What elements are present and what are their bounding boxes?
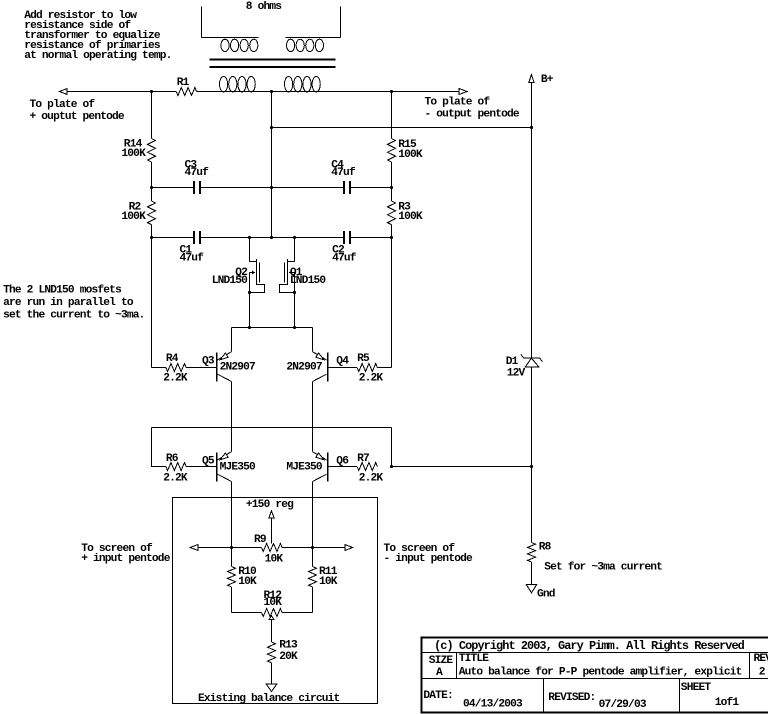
transformer T1 core (210, 60, 336, 68)
svg-text:at normal operating temp.: at normal operating temp. (24, 50, 171, 62)
svg-text:10K: 10K (238, 576, 257, 588)
svg-text:2.2K: 2.2K (163, 473, 188, 485)
transistor Q5 MJE350 (202, 452, 256, 482)
title block size cell (429, 655, 454, 679)
svg-text:SIZE: SIZE (429, 655, 454, 667)
title block sheet cell (681, 682, 740, 709)
transistor Q4 2N2907 (286, 352, 349, 382)
svg-text:R1: R1 (177, 77, 190, 89)
resistor R10 (228, 548, 257, 613)
svg-text:REVISED:: REVISED: (548, 692, 595, 704)
transformer T1 primary winding (220, 77, 321, 92)
resistor R2 (121, 201, 155, 225)
svg-text:R13: R13 (279, 640, 298, 652)
svg-text:R9: R9 (254, 534, 267, 546)
svg-text:Q5: Q5 (202, 455, 215, 467)
label: to screen of - input pentode (384, 543, 474, 565)
svg-text:Auto balance for P-P pentode a: Auto balance for P-P pentode amplifier, … (459, 667, 742, 679)
mosfet Q2 LND150 (212, 238, 265, 328)
title block title cell (459, 653, 742, 678)
wire: Q4 collector to Q6 emitter (312, 382, 314, 452)
wire: main plate wire with end arrows (59, 89, 467, 95)
svg-text:2.2K: 2.2K (359, 473, 384, 485)
wire: screen drive row with arrows (190, 545, 353, 551)
resistor R8 (528, 541, 552, 562)
svg-text:To plate of: To plate of (425, 96, 491, 108)
wire: upper cap row (152, 187, 392, 189)
svg-text:100K: 100K (121, 148, 146, 160)
svg-text:set the current to ~3ma.: set the current to ~3ma. (3, 310, 144, 322)
label: to plate of + ouptut pentode (30, 99, 125, 123)
capacitor C3 (185, 160, 210, 195)
svg-text:12V: 12V (507, 368, 526, 380)
capacitor C4 (331, 160, 356, 195)
ground Gnd (526, 584, 555, 600)
transistor Q3 2N2907 (202, 352, 255, 382)
wire: mosfet source rail to Q3 Q4 emitters (232, 326, 313, 352)
svg-text:10K: 10K (265, 554, 284, 566)
svg-text:The 2 LND150 mosfets: The 2 LND150 mosfets (3, 285, 122, 297)
resistor R11 (309, 548, 338, 613)
diode D1 zener 12V (506, 354, 543, 379)
svg-text:Q4: Q4 (336, 355, 349, 367)
resistor R1 (176, 77, 196, 95)
svg-text:REV: REV (754, 653, 768, 665)
transistor Q6 MJE350 (286, 452, 349, 482)
potentiometer R9 (254, 534, 283, 566)
svg-text:Q6: Q6 (336, 455, 349, 467)
wire: loop row to zener rail (392, 465, 534, 468)
wire: lower cap row (152, 236, 392, 239)
svg-text:100K: 100K (398, 149, 423, 161)
power symbol +150 reg (246, 499, 294, 543)
svg-text:SHEET: SHEET (681, 682, 712, 694)
note: add resistor annotation (24, 10, 171, 62)
svg-text:47uf: 47uf (185, 167, 210, 179)
svg-text:2N2907: 2N2907 (220, 362, 255, 374)
wire: R12 row (232, 612, 313, 614)
resistor R7 (328, 453, 383, 485)
capacitor C2 (332, 231, 357, 265)
svg-text:are run in parallel to: are run in parallel to (3, 297, 134, 309)
wire: secondary right stub (340, 7, 342, 38)
svg-text:D1: D1 (506, 356, 519, 368)
svg-text:A: A (436, 667, 443, 679)
resistor R5 (328, 353, 383, 385)
note: LND150 mosfets annotation (3, 285, 144, 322)
potentiometer R12 (262, 590, 283, 619)
wire: R13 to ground (271, 663, 273, 684)
svg-text:DATE:: DATE: (423, 690, 452, 702)
svg-text:R7: R7 (357, 453, 369, 465)
wire: feedback loop row (152, 428, 394, 469)
svg-text:100K: 100K (398, 211, 423, 223)
label: to plate of - output pentode (425, 96, 520, 120)
resistor R6 (163, 453, 216, 485)
svg-text:TITLE: TITLE (459, 653, 490, 665)
svg-text:100K: 100K (121, 211, 146, 223)
resistor R4 (163, 353, 216, 385)
svg-text:+ ouptut pentode: + ouptut pentode (30, 111, 125, 123)
wire: center tap to B+ rail (270, 126, 533, 129)
svg-text:- input pentode: - input pentode (384, 553, 474, 565)
wire: center column (270, 92, 273, 240)
wire: R12 wiper to R13 (271, 619, 273, 642)
svg-text:LND150: LND150 (212, 275, 248, 287)
label: to screen of + input pentode (81, 543, 171, 565)
svg-text:+150 reg: +150 reg (246, 499, 294, 511)
svg-text:8 ohms: 8 ohms (246, 1, 282, 13)
svg-text:R5: R5 (357, 353, 370, 365)
svg-text:Gnd: Gnd (537, 588, 555, 600)
transformer T1 secondary winding (202, 38, 341, 52)
svg-text:2: 2 (759, 666, 766, 678)
wire: secondary left stub (201, 7, 203, 38)
resistor R13 (268, 640, 298, 663)
wire: zener rail lower (531, 367, 533, 543)
wire: Q3 collector to Q5 emitter (231, 382, 233, 452)
svg-text:47uf: 47uf (331, 167, 356, 179)
svg-text:Existing balance circuit: Existing balance circuit (198, 693, 340, 705)
svg-text:07/29/03: 07/29/03 (599, 699, 647, 711)
ground arrow below R13 (266, 684, 277, 691)
title block revised cell (548, 692, 647, 711)
svg-text:R6: R6 (166, 453, 179, 465)
svg-text:R4: R4 (166, 353, 179, 365)
wire: right rail (377, 92, 393, 368)
svg-text:+ input pentode: + input pentode (81, 553, 171, 565)
title block date cell (423, 690, 523, 711)
svg-text:- output pentode: - output pentode (425, 108, 520, 120)
box: existing balance circuit (173, 498, 378, 705)
wire: R8 to ground (531, 562, 533, 584)
title block frame (422, 638, 768, 713)
mosfet Q1 LND150 (280, 238, 327, 328)
svg-text:To plate of: To plate of (30, 99, 96, 111)
svg-text:2.2K: 2.2K (359, 373, 384, 385)
svg-text:(c) Copyright 2003, Gary Pimm.: (c) Copyright 2003, Gary Pimm. All Right… (434, 639, 745, 653)
svg-text:10K: 10K (264, 597, 283, 609)
svg-text:Set for ~3ma current: Set for ~3ma current (544, 561, 662, 573)
resistor R14 (121, 138, 155, 162)
svg-text:B+: B+ (541, 74, 554, 86)
resistor R15 (388, 139, 423, 163)
svg-text:47uf: 47uf (332, 253, 357, 265)
wire: Q6 collector down (312, 482, 314, 548)
svg-text:MJE350: MJE350 (286, 462, 322, 474)
svg-text:10K: 10K (319, 576, 338, 588)
svg-text:04/13/2003: 04/13/2003 (463, 699, 523, 711)
svg-text:2N2907: 2N2907 (286, 362, 321, 374)
resistor R3 (388, 201, 423, 225)
svg-text:Q3: Q3 (202, 355, 215, 367)
svg-text:MJE350: MJE350 (220, 462, 256, 474)
svg-text:47uf: 47uf (180, 253, 205, 265)
svg-text:LND150: LND150 (290, 275, 326, 287)
wire: Q5 collector down (231, 482, 233, 548)
title block rev cell (754, 653, 768, 679)
wire: left rail (150, 92, 166, 368)
svg-text:2.2K: 2.2K (163, 373, 188, 385)
svg-text:R8: R8 (539, 541, 552, 553)
svg-text:20K: 20K (279, 651, 298, 663)
svg-text:1of1: 1of1 (715, 697, 740, 709)
capacitor C1 (180, 231, 205, 265)
wire: zener rail upper (531, 128, 533, 359)
power symbol B+ (529, 74, 554, 128)
